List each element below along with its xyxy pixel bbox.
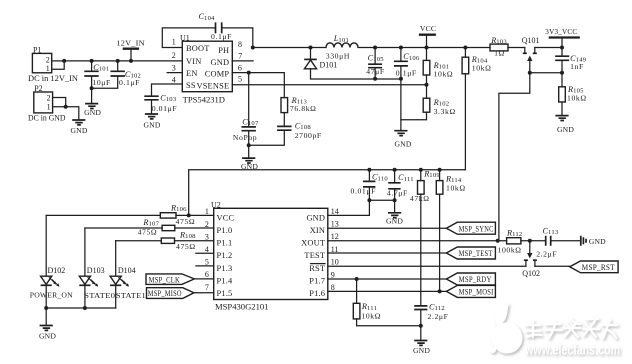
- svg-text:GND: GND: [143, 120, 160, 129]
- svg-text:10kΩ: 10kΩ: [361, 312, 381, 321]
- ground output stage: [394, 131, 412, 149]
- wire RST row to Q102: [328, 265, 526, 267]
- node C111 feed: [393, 168, 397, 172]
- node C110 pin14: [367, 198, 371, 202]
- resistor R112: [498, 228, 523, 254]
- svg-text:VCC: VCC: [217, 213, 235, 222]
- capacitor C107 NoPop: [233, 73, 259, 146]
- IC U1 TPS54231D: [172, 34, 243, 105]
- ground under C107: [241, 145, 258, 171]
- svg-text:0.1μF: 0.1μF: [211, 32, 232, 41]
- svg-text:XIN: XIN: [310, 226, 326, 235]
- flag MSP_TEST: [446, 247, 495, 259]
- power VCC: [419, 24, 436, 48]
- resistor R113: [281, 96, 317, 113]
- wire R112 to C113: [521, 240, 545, 242]
- wire Q102 to MSP_RST: [535, 265, 570, 267]
- svg-text:3: 3: [172, 63, 176, 72]
- svg-text:COMP: COMP: [205, 69, 230, 78]
- flag MSP_CLK: [146, 274, 214, 285]
- svg-text:1Ω: 1Ω: [494, 49, 505, 58]
- node C106 rail: [399, 46, 403, 50]
- svg-text:D104: D104: [118, 266, 136, 275]
- svg-text:VIN: VIN: [186, 57, 202, 66]
- node pin8 C104: [251, 46, 255, 50]
- wire 3V3 feed rail to U2 VCC: [189, 170, 466, 216]
- svg-text:47kΩ: 47kΩ: [410, 194, 430, 203]
- ground under C111: [386, 200, 403, 225]
- svg-text:10: 10: [331, 258, 339, 267]
- svg-text:TEST: TEST: [304, 251, 325, 260]
- svg-text:NoPop: NoPop: [233, 133, 257, 142]
- node D101: [309, 46, 313, 50]
- svg-text:GND: GND: [306, 213, 325, 222]
- svg-text:GND: GND: [413, 346, 430, 355]
- wire P1 pin2 to 12V rail: [52, 60, 64, 62]
- node 12V_IN rail: [129, 59, 133, 63]
- resistor R105: [559, 73, 587, 115]
- svg-text:1: 1: [46, 64, 50, 73]
- svg-text:100kΩ: 100kΩ: [498, 245, 522, 254]
- svg-text:2.2μF: 2.2μF: [536, 249, 557, 258]
- svg-text:8: 8: [331, 283, 335, 292]
- svg-text:MSP_SYNC: MSP_SYNC: [459, 224, 494, 233]
- node C102 rail: [116, 59, 120, 63]
- ground under C101: [84, 88, 101, 117]
- node Q102 gate: [528, 239, 532, 243]
- svg-text:1nF: 1nF: [570, 62, 584, 71]
- node C110 feed: [367, 168, 371, 172]
- svg-text:3: 3: [205, 232, 209, 241]
- node C112 R111 join: [419, 324, 423, 328]
- power 12V_IN: [116, 38, 145, 61]
- flag MSP_RDY: [446, 273, 495, 285]
- resistor R102: [401, 85, 456, 120]
- wire ground drop: [400, 79, 402, 130]
- inductor L101: [326, 34, 358, 60]
- wire P1 pin1 riser: [52, 61, 64, 69]
- connector P1: [28, 45, 78, 83]
- svg-text:GND: GND: [70, 126, 87, 135]
- pin 7 GND stub: [232, 60, 253, 62]
- svg-text:GND: GND: [39, 331, 56, 340]
- node VSENSE divider: [425, 83, 429, 87]
- svg-text:Q101: Q101: [522, 36, 540, 45]
- capacitor C111: [387, 170, 414, 201]
- svg-text:P1.1: P1.1: [217, 239, 233, 248]
- wire VSENSE feedback: [232, 84, 426, 86]
- power 3V3_VCC: [545, 27, 580, 48]
- flag MSP_RST: [570, 261, 618, 273]
- capacitor C105: [366, 48, 385, 79]
- node 3V3 feed at pin1: [187, 213, 191, 217]
- wire P1.6 to MSP_MOSI: [328, 290, 447, 292]
- node C105 rail: [373, 46, 377, 50]
- svg-text:0.1μF: 0.1μF: [396, 69, 417, 78]
- svg-text:DC in 12V_IN: DC in 12V_IN: [28, 74, 78, 83]
- svg-text:P2: P2: [34, 84, 42, 93]
- ground under P2: [70, 120, 87, 135]
- svg-text:5: 5: [205, 258, 209, 267]
- wire C110 to C111 bottoms: [369, 199, 394, 201]
- svg-text:XOUT: XOUT: [301, 239, 325, 248]
- svg-text:3.3kΩ: 3.3kΩ: [434, 107, 456, 116]
- svg-text:2: 2: [47, 93, 51, 102]
- ground under C103: [143, 114, 160, 129]
- watermark: [490, 303, 620, 359]
- svg-text:MSP_RDY: MSP_RDY: [459, 275, 492, 284]
- svg-text:GND: GND: [557, 125, 574, 134]
- node R114 feed: [438, 168, 442, 172]
- svg-text:MSP_RST: MSP_RST: [582, 263, 615, 272]
- svg-text:6: 6: [205, 270, 209, 279]
- svg-text:475Ω: 475Ω: [176, 217, 196, 226]
- wire PH output rail: [253, 47, 562, 49]
- wire Q101 drain to C149/R105: [530, 72, 562, 74]
- wire Q101 drain down to R112 node: [499, 73, 530, 241]
- node R114 bottom: [438, 289, 442, 293]
- node C111 join: [393, 198, 397, 202]
- node C106 gnd line: [399, 77, 403, 81]
- resistor R101: [423, 48, 453, 85]
- svg-text:TPS54231D: TPS54231D: [183, 95, 226, 104]
- svg-text:2700pF: 2700pF: [295, 131, 322, 140]
- svg-text:U1: U1: [180, 34, 190, 43]
- node C149 R105: [560, 71, 564, 75]
- svg-text:P1.5: P1.5: [217, 289, 233, 298]
- svg-text:STATE0: STATE0: [84, 291, 115, 300]
- svg-text:MSP_CLK: MSP_CLK: [149, 275, 181, 284]
- node 3V3 rail: [560, 46, 564, 50]
- svg-text:P1.0: P1.0: [217, 226, 233, 235]
- resistor R106: [46, 204, 214, 226]
- svg-text:P1.2: P1.2: [217, 251, 233, 260]
- svg-text:GND: GND: [84, 108, 101, 117]
- svg-text:MSP_MOSI: MSP_MOSI: [459, 288, 494, 297]
- node R104 rail: [463, 46, 467, 50]
- node C101 rail: [90, 59, 94, 63]
- capacitor C108: [249, 113, 322, 146]
- svg-text:GND: GND: [589, 237, 606, 246]
- wire 12V rail: [64, 60, 183, 62]
- node C101/C102 join: [90, 86, 94, 90]
- svg-text:P1: P1: [33, 45, 41, 54]
- svg-text:Q102: Q102: [522, 269, 540, 278]
- svg-text:VSENSE: VSENSE: [196, 82, 229, 91]
- node P1 junction: [62, 59, 66, 63]
- capacitor C106: [394, 48, 420, 79]
- svg-text:475Ω: 475Ω: [138, 227, 158, 236]
- resistor R108: [116, 230, 214, 251]
- ground under C112: [413, 326, 430, 355]
- svg-text:10kΩ: 10kΩ: [434, 69, 454, 78]
- svg-text:12: 12: [331, 232, 339, 241]
- capacitor C112: [414, 302, 448, 325]
- svg-text:10kΩ: 10kΩ: [446, 184, 466, 193]
- LED D102: [30, 215, 73, 308]
- svg-text:GND: GND: [394, 139, 411, 148]
- wire R104 to 3V3 rail: [464, 74, 466, 170]
- pin 3 EN stub: [167, 72, 182, 74]
- wire COMP network: [232, 73, 284, 98]
- transistor Q101: [522, 36, 540, 72]
- resistor R109: [410, 170, 440, 203]
- svg-text:10kΩ: 10kΩ: [472, 64, 492, 73]
- svg-text:SS: SS: [186, 81, 196, 90]
- capacitor C102: [92, 61, 141, 88]
- connector P2: [28, 84, 66, 123]
- svg-text:76.8kΩ: 76.8kΩ: [290, 104, 317, 113]
- svg-text:STATE1: STATE1: [116, 291, 146, 300]
- resistor R107: [85, 218, 214, 237]
- capacitor C113: [536, 226, 581, 258]
- wire XOUT row: [328, 240, 507, 242]
- wire XIN to MSP_SYNC: [328, 227, 447, 229]
- svg-text:EN: EN: [186, 69, 198, 78]
- svg-text:GND: GND: [211, 58, 230, 67]
- ground under LEDs: [39, 308, 56, 340]
- resistor R104: [462, 48, 491, 74]
- svg-text:7: 7: [238, 52, 242, 61]
- flag MSP_SYNC: [446, 222, 495, 234]
- ground tick after C113: [581, 236, 606, 246]
- capacitor C101: [84, 61, 111, 88]
- wire R114 to P1.6 row: [439, 194, 441, 291]
- svg-text:4.7μF: 4.7μF: [387, 189, 408, 198]
- svg-text:475Ω: 475Ω: [176, 242, 196, 251]
- node COMP C107: [247, 71, 251, 75]
- node XOUT junction: [496, 239, 500, 243]
- LED D104: [110, 241, 146, 308]
- wire TEST to MSP_TEST: [328, 252, 447, 254]
- svg-text:RST: RST: [309, 264, 325, 273]
- node D103 return: [83, 306, 87, 310]
- svg-text:1: 1: [172, 38, 176, 47]
- flag MSP_MISO: [147, 288, 214, 299]
- svg-text:MSP430G2101: MSP430G2101: [215, 302, 269, 311]
- svg-text:1: 1: [47, 102, 51, 111]
- resistor R111: [353, 279, 421, 326]
- svg-text:330μH: 330μH: [326, 51, 350, 60]
- resistor R103: [490, 36, 508, 58]
- node Q101 drain: [528, 71, 532, 75]
- svg-text:P1.7: P1.7: [309, 277, 325, 286]
- svg-text:9: 9: [331, 270, 335, 279]
- svg-text:www.elecfans.com: www.elecfans.com: [524, 343, 620, 359]
- resistor R114: [436, 170, 465, 194]
- svg-text:0.1μF: 0.1μF: [119, 78, 140, 87]
- wire P2 pin1 to ground: [53, 107, 79, 120]
- svg-text:2.2μF: 2.2μF: [428, 312, 449, 321]
- svg-text:DC in GND: DC in GND: [28, 113, 66, 122]
- svg-text:47μF: 47μF: [366, 67, 385, 76]
- svg-text:10μF: 10μF: [92, 78, 111, 87]
- pin 5 stub: [196, 265, 214, 267]
- capacitor C103 soft-start: [144, 84, 182, 113]
- svg-text:PH: PH: [218, 46, 229, 55]
- wire R109 to C112: [420, 194, 422, 305]
- svg-text:2: 2: [172, 51, 176, 60]
- svg-text:14: 14: [331, 207, 339, 216]
- svg-text:0.01μF: 0.01μF: [152, 104, 177, 113]
- wire LED common return: [46, 307, 116, 309]
- wire pin14 GND to C110: [328, 200, 370, 215]
- flag MSP_MOSI: [446, 285, 495, 297]
- svg-text:D102: D102: [48, 266, 66, 275]
- svg-text:P1.3: P1.3: [217, 264, 233, 273]
- svg-text:MSP_TEST: MSP_TEST: [459, 249, 493, 258]
- svg-text:U2: U2: [211, 200, 221, 209]
- svg-text:D101: D101: [320, 60, 338, 69]
- node D102 return: [44, 306, 48, 310]
- svg-text:12V_IN: 12V_IN: [116, 38, 145, 47]
- svg-text:GND: GND: [386, 216, 403, 225]
- transistor Q102: [522, 241, 540, 278]
- node R109 feed: [419, 168, 423, 172]
- wire P2 pin2 riser: [53, 98, 66, 107]
- LED D103: [79, 228, 115, 308]
- svg-text:13: 13: [331, 220, 339, 229]
- svg-text:P1.6: P1.6: [309, 289, 325, 298]
- svg-text:0.01μF: 0.01μF: [351, 187, 376, 196]
- svg-text:4: 4: [172, 75, 176, 84]
- pin 4 stub: [196, 252, 214, 254]
- svg-text:MSP_MISO: MSP_MISO: [148, 289, 182, 298]
- capacitor C110: [351, 170, 389, 201]
- wire P1.7 to MSP_RDY: [328, 278, 447, 280]
- svg-text:POWER_ON: POWER_ON: [30, 291, 73, 300]
- ground under R105: [555, 116, 574, 134]
- capacitor C149: [555, 48, 587, 73]
- svg-text:5: 5: [238, 74, 242, 83]
- svg-text:VCC: VCC: [420, 24, 436, 33]
- capacitor C104 bootstrap loop: [162, 12, 253, 47]
- svg-text:P1.4: P1.4: [217, 277, 234, 286]
- node C107 C108 join: [247, 143, 251, 147]
- svg-text:3V3_VCC: 3V3_VCC: [545, 27, 577, 36]
- node R111 top: [355, 277, 359, 281]
- IC U2 MSP430G2101: [205, 200, 339, 311]
- svg-text:BOOT: BOOT: [186, 44, 210, 53]
- svg-text:7: 7: [205, 283, 209, 292]
- node P2 junction: [64, 105, 68, 109]
- svg-text:6: 6: [238, 63, 242, 72]
- node VCC rail: [425, 46, 429, 50]
- svg-text:4: 4: [205, 245, 209, 254]
- node C105 gnd line: [373, 77, 377, 81]
- diode D101: [304, 48, 401, 80]
- svg-text:10kΩ: 10kΩ: [567, 94, 587, 103]
- svg-text:D103: D103: [87, 266, 105, 275]
- svg-text:8: 8: [238, 40, 242, 49]
